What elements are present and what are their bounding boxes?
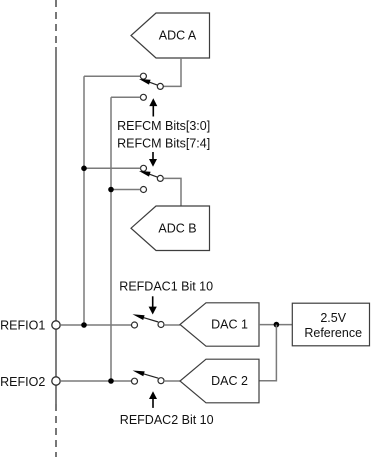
junction dot riser1/SW2 throw1 [81,166,87,172]
wire SW1 throw1 to REFIO1 riser [84,75,140,77]
wire SW4 to DAC2 input [164,380,180,382]
svg-text:ADC A: ADC A [159,29,197,43]
wire SW2 throw1 to riser x=84 [84,167,141,169]
svg-text:2.5V: 2.5V [320,311,346,325]
svg-text:REFDAC1 Bit 10: REFDAC1 Bit 10 [119,280,213,294]
control arrow up (REFCM Bits[3:0]) [149,98,157,116]
wire REFIO1 rail to switch SW3 [60,324,131,326]
switch SW2 throw 2 contact [141,187,147,193]
switch SW2 blade with arrowhead [139,171,158,177]
pin REFIO2 [52,377,60,385]
switch SW1 throw 1 contact [140,73,146,79]
junction dot riser1/REFIO1 [81,322,87,328]
wire SW1 throw2 to riser x=111 [111,96,140,98]
junction dot DAC1 output [274,322,280,328]
wire REFIO2 rail to switch SW4 [60,380,131,382]
switch SW3 right contact [158,322,164,328]
switch SW4 blade with arrowhead [133,371,159,379]
ADC B [131,206,210,251]
svg-text:REFCM Bits[7:4]: REFCM Bits[7:4] [117,136,210,150]
svg-text:ADC B: ADC B [158,221,196,235]
junction dot riser2/REFIO2 [108,378,114,384]
junction dot riser2/SW2 throw2 [108,187,114,193]
DAC 1 [180,303,259,346]
pin REFIO1 [52,321,60,329]
control arrow down (REFCM Bits[7:4]) [149,152,157,167]
control arrow up (REFDAC2 Bit 10) [149,391,157,408]
switch SW1 common contact [157,83,163,89]
riser wire x=111 down to REFIO2 rail [110,97,112,381]
wire SW2 throw2 to riser x=111 [111,189,141,191]
wire reference branch down to DAC2 output [259,325,276,381]
wire SW2 common to ADC B [163,178,181,206]
svg-text:DAC 1: DAC 1 [211,318,248,332]
svg-text:REFIO1: REFIO1 [0,318,45,332]
chip boundary dashed line (bottom segment) [55,404,57,457]
riser wire x=84 down to REFIO1 rail [83,76,85,325]
switch SW4 left contact [132,378,138,384]
wire SW3 to DAC1 input [164,324,180,326]
reference bus solid segment of boundary line [55,47,57,404]
wire DAC1 output to 2.5V reference [259,324,292,326]
switch SW1 blade with arrowhead [139,79,158,85]
switch SW2 common contact [157,175,163,181]
switch SW4 right contact [158,378,164,384]
svg-text:Reference: Reference [304,326,362,340]
control arrow down (REFDAC1 Bit 10) [149,296,157,314]
svg-text:REFIO2: REFIO2 [0,375,45,389]
switch SW1 throw 2 contact [140,94,146,100]
ADC A [131,13,210,58]
2.5V reference box [292,303,369,346]
svg-text:REFDAC2 Bit 10: REFDAC2 Bit 10 [120,413,214,427]
DAC 2 [180,359,259,403]
switch SW2 throw 1 contact [141,165,147,171]
svg-text:DAC 2: DAC 2 [211,374,248,388]
chip boundary dashed line (top segment) [55,0,57,47]
switch SW3 left contact [132,322,138,328]
switch SW3 blade with arrowhead [133,314,159,322]
wire ADC A to switch SW1 common [163,58,181,86]
svg-text:REFCM Bits[3:0]: REFCM Bits[3:0] [117,119,210,133]
